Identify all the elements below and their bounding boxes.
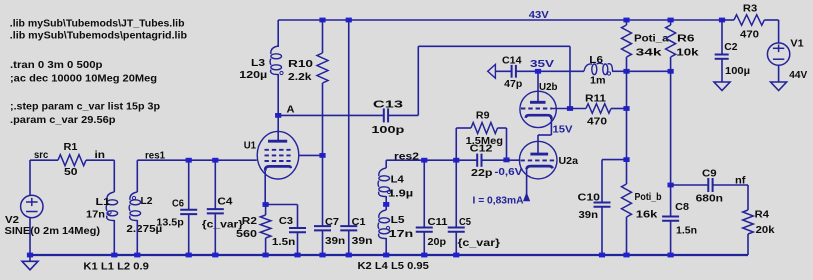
wire C7 bottom lead <box>322 230 324 255</box>
ground C2 <box>714 82 730 91</box>
svg-text:SINE(0 2m 14Meg): SINE(0 2m 14Meg) <box>5 226 101 237</box>
wire node A to C13 <box>278 114 384 116</box>
svg-text:100µ: 100µ <box>725 66 750 77</box>
svg-text:44V: 44V <box>789 70 807 81</box>
junction bus-C7 <box>319 253 325 258</box>
inductor L3 <box>270 46 281 75</box>
svg-text:R3: R3 <box>743 3 758 14</box>
svg-text:10k: 10k <box>676 48 699 59</box>
svg-text:C11: C11 <box>428 217 448 228</box>
svg-text:V1: V1 <box>790 38 804 49</box>
svg-text:L1: L1 <box>96 197 111 208</box>
junction res2-C11 <box>421 158 427 163</box>
U1 grid g3 <box>265 149 291 151</box>
wire C1 bottom lead <box>348 230 350 255</box>
wire C5 bottom lead <box>455 232 457 255</box>
inductor L2 <box>129 192 140 221</box>
wire U2b grid to R11 <box>552 108 586 110</box>
ground main <box>22 261 38 270</box>
junction C12-grid <box>503 158 509 163</box>
svg-text:13.5p: 13.5p <box>156 217 183 228</box>
junction bus-R2 <box>263 253 269 258</box>
svg-text:50: 50 <box>64 167 78 178</box>
svg-text:;ac dec 10000 10Meg 20Meg: ;ac dec 10000 10Meg 20Meg <box>10 73 157 84</box>
voltage source V2 body <box>21 195 43 217</box>
wire cathode to C3 <box>266 204 298 206</box>
wire C10 bottom lead <box>601 207 603 255</box>
junction rail-R10 <box>319 18 325 23</box>
wire U2a plate pin <box>537 135 539 153</box>
svg-text:39n: 39n <box>579 210 599 221</box>
svg-text:100p: 100p <box>371 125 404 136</box>
wire L1 bottom lead <box>113 220 115 255</box>
junction bus-C11 <box>421 253 427 258</box>
svg-text:17n: 17n <box>389 229 414 240</box>
resistor Poti_b <box>622 184 632 217</box>
wire arrow to C14 <box>495 70 511 72</box>
phase dot L6 <box>607 72 610 75</box>
wire C4 bottom lead <box>214 213 216 255</box>
svg-text:A: A <box>287 104 295 115</box>
wire C5 top lead <box>455 160 457 228</box>
junction C9-C8 <box>668 183 674 188</box>
svg-text:1.9µ: 1.9µ <box>388 189 413 200</box>
svg-text:C8: C8 <box>675 202 689 213</box>
svg-text:L5: L5 <box>391 215 405 226</box>
svg-text:.tran 0 3m 0 500p: .tran 0 3m 0 500p <box>10 60 103 71</box>
inductor L4 <box>378 168 389 197</box>
svg-text:R2: R2 <box>242 216 258 227</box>
svg-text:U1: U1 <box>244 141 257 152</box>
junction res2-C5-R9 <box>453 158 459 163</box>
junction R11-divider <box>623 106 629 111</box>
junction bus-V2 <box>27 253 33 258</box>
junction U1 cathode <box>263 202 269 207</box>
tube U2b envelope <box>520 91 556 127</box>
svg-text:C14: C14 <box>502 56 522 67</box>
svg-text:22p: 22p <box>471 168 493 179</box>
svg-text:1.5n: 1.5n <box>676 226 697 237</box>
wire R10 top lead <box>322 20 324 53</box>
phase dot L5 <box>386 226 389 229</box>
junction L4-L5 <box>383 202 389 207</box>
wire C3 bottom lead <box>297 232 299 255</box>
wire C11 bottom lead <box>423 232 425 255</box>
phase dot L2 <box>132 196 135 199</box>
svg-text:20p: 20p <box>428 237 447 248</box>
wire C10 top link <box>602 159 627 161</box>
svg-text:C10: C10 <box>578 193 601 204</box>
wire ground stub <box>29 255 31 261</box>
resistor R9 <box>471 123 498 134</box>
wire R10 bottom to C7 <box>322 83 324 226</box>
wire C11 top lead <box>423 160 425 228</box>
capacitor C5 <box>448 228 465 232</box>
junction g2 node <box>319 153 325 158</box>
junction res1-C6 <box>186 158 192 163</box>
svg-text:1m: 1m <box>590 76 606 87</box>
svg-text:Poti_b: Poti_b <box>635 192 662 203</box>
U2b cathode <box>526 115 552 119</box>
capacitor C7 <box>314 226 331 230</box>
junction L6-divider <box>623 69 629 74</box>
wire R9 right lead <box>498 127 507 129</box>
junction R6 bottom <box>668 69 674 74</box>
svg-text:C4: C4 <box>217 196 233 207</box>
svg-text:20k: 20k <box>756 225 775 236</box>
junction bus-Poti_b <box>623 253 629 258</box>
svg-text:K2 L4 L5 0.95: K2 L4 L5 0.95 <box>358 261 430 272</box>
wire R9 right lead down <box>506 128 508 160</box>
capacitor C6 <box>180 210 197 214</box>
capacitor C8 <box>662 217 679 221</box>
wire U2b cathode pin down <box>550 117 552 135</box>
svg-text:R1: R1 <box>64 142 78 153</box>
svg-text:470: 470 <box>587 116 608 127</box>
wire R6 top lead <box>670 20 672 25</box>
svg-text:C9: C9 <box>702 169 717 180</box>
svg-text:nf: nf <box>735 175 746 186</box>
svg-text:L3: L3 <box>251 58 266 69</box>
wire L2 top lead <box>136 160 138 192</box>
svg-text:R10: R10 <box>288 59 314 70</box>
junction node A <box>275 113 281 118</box>
wire to C9 <box>671 184 709 186</box>
wire U2b plate pin <box>537 71 539 101</box>
capacitor C9 <box>708 178 712 192</box>
wire down to U2b grid <box>569 46 571 108</box>
wire L4 top lead <box>385 160 387 168</box>
wire in <box>86 159 114 161</box>
wire C2 top lead <box>721 20 723 55</box>
wire L5 bottom lead <box>385 238 387 255</box>
wire R2 top lead <box>265 205 267 216</box>
svg-text:.lib mySub\Tubemods\pentagrid.: .lib mySub\Tubemods\pentagrid.lib <box>10 31 187 42</box>
wire C4 top lead <box>214 160 216 209</box>
wire res2 <box>386 159 477 161</box>
capacitor C12 <box>477 154 481 167</box>
svg-text:16k: 16k <box>636 209 658 220</box>
resistor R2 <box>260 215 271 238</box>
wire cathode jog <box>538 134 551 136</box>
U2b plate <box>530 101 546 104</box>
wire C2 bottom lead <box>721 59 723 82</box>
svg-text:L4: L4 <box>391 175 405 186</box>
resistor R1 <box>58 155 86 166</box>
resistor R11 <box>586 104 611 114</box>
junction res1-C4 <box>212 158 218 163</box>
wire R3 left lead <box>722 19 734 21</box>
tube U1 envelope <box>257 131 299 179</box>
svg-text:39n: 39n <box>352 236 373 247</box>
wire src <box>30 159 58 161</box>
junction divider-C10 <box>623 157 629 162</box>
capacitor C10 <box>594 203 611 207</box>
svg-text:in: in <box>95 150 106 161</box>
wire C8 bottom lead <box>670 221 672 255</box>
junction bus-C1 <box>346 253 352 258</box>
svg-text:C13: C13 <box>373 100 404 111</box>
svg-text:Poti_a: Poti_a <box>634 34 669 45</box>
svg-text:2.2k: 2.2k <box>288 72 312 83</box>
wire U1 g2 to junction <box>300 154 323 156</box>
svg-text:C5: C5 <box>459 217 471 228</box>
svg-text:U2a: U2a <box>559 156 579 167</box>
resistor Poti_a <box>622 25 632 57</box>
resistor R6 <box>666 25 676 57</box>
wire R9 left lead down <box>455 128 457 160</box>
wire R9 left lead <box>456 127 471 129</box>
wire C13 riser <box>417 46 419 115</box>
junction U2b plate node <box>535 69 541 74</box>
inductor L1 <box>106 192 117 221</box>
junction bus-C10 <box>599 253 605 258</box>
wire V1 top lead <box>778 20 780 43</box>
svg-text:15V: 15V <box>553 125 573 136</box>
U2b grid <box>521 108 552 110</box>
svg-text:res2: res2 <box>394 152 420 163</box>
svg-text:U2b: U2b <box>539 82 558 93</box>
U1 plate <box>268 140 287 143</box>
svg-text:35V: 35V <box>530 59 554 70</box>
svg-text:C3: C3 <box>279 216 294 227</box>
U2a plate <box>530 153 548 156</box>
svg-text:R9: R9 <box>476 110 490 121</box>
capacitor C13 <box>384 108 388 122</box>
svg-text:res1: res1 <box>145 150 165 161</box>
wire U1 plate pin <box>277 115 279 141</box>
wire U1 cathode pin <box>264 171 266 205</box>
U2a cathode <box>527 166 553 169</box>
svg-text:R4: R4 <box>755 209 770 220</box>
svg-text:120µ: 120µ <box>239 70 267 81</box>
current annotation arrow <box>523 192 530 201</box>
resistor R4 <box>743 210 754 234</box>
resistor R3 <box>734 15 764 26</box>
wire V1 bottom lead <box>778 65 780 82</box>
wire ground bus <box>30 254 748 256</box>
wire C3 top lead <box>297 205 299 229</box>
junction bus-L1 <box>111 253 117 258</box>
wire C6 top lead <box>188 160 190 210</box>
svg-text:C12: C12 <box>470 143 493 154</box>
svg-text:V2: V2 <box>5 215 19 226</box>
wire C1 top lead <box>348 20 350 226</box>
wire L3 bottom lead <box>277 74 279 115</box>
wire R2 bottom lead <box>265 238 267 255</box>
wire L6 to divider <box>612 70 627 72</box>
svg-text:.param c_var 29.56p: .param c_var 29.56p <box>10 115 116 126</box>
svg-text:47p: 47p <box>504 79 522 90</box>
ground V1 <box>771 82 787 91</box>
capacitor C4 <box>207 209 224 213</box>
svg-text:1.5n: 1.5n <box>272 237 295 248</box>
svg-text:R6: R6 <box>677 34 695 45</box>
wire res1 <box>137 159 256 161</box>
svg-text:C1: C1 <box>352 217 366 228</box>
phase dot L4 <box>387 190 390 193</box>
capacitor C11 <box>416 228 433 232</box>
wire L3 top lead <box>277 20 279 47</box>
capacitor C3 <box>289 228 306 232</box>
svg-text:.lib mySub\Tubemods\JT_Tubes.l: .lib mySub\Tubemods\JT_Tubes.lib <box>10 18 185 29</box>
junction bus-C6 <box>186 253 192 258</box>
svg-text:{c_var}: {c_var} <box>458 238 501 249</box>
U1 grid g1 <box>265 160 291 162</box>
svg-text:-0,6V: -0,6V <box>495 167 523 178</box>
wire over to U2b grid <box>418 45 570 47</box>
junction rail-R6 <box>668 18 674 23</box>
wire R4 top lead <box>747 185 749 210</box>
inductor L5 <box>378 210 389 239</box>
wire in vertical <box>113 160 115 192</box>
svg-text:470: 470 <box>740 29 759 40</box>
U1 grid g2 <box>265 154 291 156</box>
svg-text:560: 560 <box>236 229 258 240</box>
wire divider middle <box>626 57 628 184</box>
inductor L6 <box>584 63 613 74</box>
capacitor C14 <box>512 65 516 78</box>
junction rail-Poti_a <box>623 18 629 23</box>
wire C12 to U2a grid <box>482 159 520 161</box>
phase dot L1 <box>108 211 111 214</box>
wire R6 to C9 node <box>670 57 672 185</box>
wire C10 top lead <box>601 160 603 203</box>
junction U2b grid node <box>567 106 573 111</box>
wire C8 top lead <box>670 185 672 217</box>
svg-text:680n: 680n <box>696 194 723 205</box>
capacitor C2 <box>715 55 729 59</box>
svg-text:C6: C6 <box>172 198 184 209</box>
svg-text:I = 0,83mA: I = 0,83mA <box>473 196 524 207</box>
phase dot L3 <box>280 71 283 74</box>
wire Poti_b bottom lead <box>626 217 628 255</box>
junction rail-C2-R3 <box>719 18 725 23</box>
port arrow <box>488 64 496 78</box>
wire L2 bottom lead <box>136 220 138 255</box>
svg-text:K1 L1 L2 0.9: K1 L1 L2 0.9 <box>83 261 149 272</box>
wire R11 right lead <box>611 108 627 110</box>
svg-text:R11: R11 <box>585 94 607 105</box>
wire U2a cathode pin <box>526 169 528 201</box>
wire R3 right lead <box>764 19 778 21</box>
svg-text:C7: C7 <box>325 217 339 228</box>
junction rail-C1 <box>346 18 352 23</box>
junction bus-C3 <box>294 253 300 258</box>
junction bus-C4 <box>212 253 218 258</box>
U1 cathode <box>265 166 291 170</box>
wire R4 bottom lead <box>747 234 749 255</box>
U2a grid <box>521 159 557 161</box>
wire divider to R6 bottom <box>627 70 671 72</box>
junction bus-C8 <box>668 253 674 258</box>
junction bus-L2 <box>134 253 140 258</box>
wire nf <box>713 184 748 186</box>
wire 35V <box>516 70 584 72</box>
wire L4-L5 link <box>385 196 387 210</box>
resistor R10 <box>317 53 328 83</box>
svg-text:C2: C2 <box>724 42 738 53</box>
wire V2 bottom lead <box>29 218 31 255</box>
wire C13 to corner <box>388 114 418 116</box>
svg-text:src: src <box>34 150 49 161</box>
wire 43V rail <box>278 19 722 21</box>
svg-text:43V: 43V <box>529 10 549 21</box>
junction bus-L5 <box>383 253 389 258</box>
tube U2a envelope <box>519 141 557 179</box>
svg-text:39n: 39n <box>325 236 345 247</box>
svg-text:L2: L2 <box>141 196 153 207</box>
svg-text:;.step param c_var list 15p 3p: ;.step param c_var list 15p 3p <box>10 101 160 112</box>
wire Poti_a top lead <box>626 20 628 25</box>
svg-text:L6: L6 <box>589 55 603 66</box>
svg-text:34k: 34k <box>636 48 662 59</box>
capacitor C1 <box>340 226 357 230</box>
voltage source V1 body <box>767 43 789 65</box>
junction bus-C5 <box>453 253 459 258</box>
wire C6 bottom lead <box>188 214 190 255</box>
wire V2 top lead <box>29 160 31 195</box>
svg-text:17n: 17n <box>86 210 105 221</box>
